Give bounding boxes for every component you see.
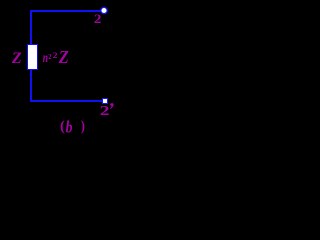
svg-text:Z: Z [11,50,22,67]
wire: left vertical lower segment [30,69,32,101]
svg-text:2: 2 [94,12,102,26]
svg-text:2: 2 [48,52,51,61]
svg-text:b: b [66,118,73,137]
wire: left vertical upper segment [30,10,32,45]
wire: bottom horizontal to terminal 2' [30,100,103,102]
terminal 2' (small square) [103,99,108,104]
wire: top horizontal from left corner to terminal 2 [30,10,102,12]
svg-text:): ) [81,119,85,135]
impedance box n^2 Z [28,45,38,70]
svg-text:2: 2 [53,50,58,60]
prime mark of 2' [110,103,114,109]
svg-text:2: 2 [100,103,110,118]
svg-text:Z: Z [58,47,69,67]
terminal 2 (open circle) [101,7,107,13]
svg-text:(: ( [60,119,65,135]
